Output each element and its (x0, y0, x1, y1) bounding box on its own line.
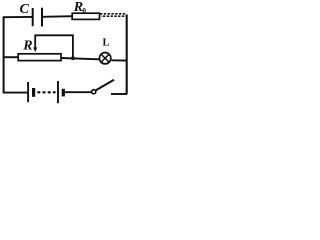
battery cell 2 short plate (62, 89, 65, 97)
battery cell 2 long plate (57, 81, 59, 103)
svg-text:C: C (20, 2, 30, 17)
lamp L (99, 53, 110, 64)
svg-text:L: L (102, 38, 109, 49)
wire bottom-left (corner to battery) (3, 92, 28, 94)
rheostat wiper arrow (33, 36, 37, 53)
label R0 (73, 0, 86, 15)
wire top-left (corner to capacitor) (3, 16, 32, 18)
wire left vertical (3, 17, 5, 93)
capacitor C (33, 8, 42, 27)
battery cell 1 short plate (32, 88, 35, 97)
svg-text:R: R (22, 38, 32, 53)
node tap junction (71, 56, 75, 60)
wire switch fixed contact stub (111, 93, 127, 95)
switch S blade (96, 80, 114, 91)
wire battery dashed (more cells) (37, 91, 55, 93)
rheostat R body (18, 54, 61, 61)
resistor R0 (72, 13, 99, 19)
battery cell 1 long plate (27, 82, 29, 102)
wire rheostat loop (wiper to tap junction) (34, 35, 73, 57)
wire top-right textured (R0 to corner) (100, 14, 127, 16)
svg-text:0: 0 (82, 6, 86, 15)
wire bottom (battery to switch) (65, 91, 92, 93)
wire middle-left (left wire to rheostat) (3, 56, 19, 58)
wire middle (rheostat to lamp) (61, 58, 99, 59)
wire top-mid (capacitor to R0) (43, 15, 73, 18)
switch S pivot (92, 90, 96, 94)
wire middle-right (lamp to right wire) (111, 59, 127, 61)
wire right vertical (126, 15, 128, 95)
